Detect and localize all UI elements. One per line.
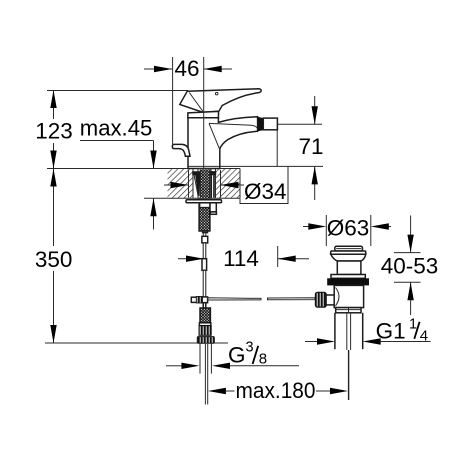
drain flange	[331, 251, 366, 254]
G3/8 connection tube walls	[199, 343, 201, 373]
dim Ø63: extension lines	[325, 215, 327, 246]
aerator joint (dark band)	[258, 117, 264, 132]
drain body boss arc	[336, 288, 340, 306]
dim max.180: arrows	[208, 388, 348, 394]
pop-up pull knob	[172, 144, 190, 156]
horizontal linkage rod segment 2	[268, 298, 316, 300]
svg-text:4: 4	[420, 327, 428, 344]
lever wedge face line	[189, 93, 203, 112]
svg-text:G: G	[228, 343, 246, 368]
drain knurled knob	[315, 292, 326, 307]
pop-up rod (upper thin)	[203, 243, 206, 259]
drain neck	[337, 261, 361, 275]
svg-text:46: 46	[174, 56, 199, 81]
drain pop-up waste: cap plate	[335, 246, 363, 251]
svg-text:8: 8	[259, 351, 267, 368]
dim 71: arrows	[312, 96, 318, 200]
dim Ø63: arrows	[303, 223, 391, 229]
base plate pieces in hole (dark)	[192, 171, 200, 175]
faucet base seam line	[188, 165, 220, 167]
mounting nut	[200, 203, 210, 208]
svg-text:G1: G1	[376, 318, 406, 343]
svg-text:Ø63: Ø63	[327, 216, 370, 241]
node: Ø34 extension lines in deck	[188, 170, 190, 198]
drain gasket (black)	[327, 278, 369, 285]
spout inner diagonal line	[209, 123, 220, 149]
mounting shank in hole	[198, 169, 211, 199]
dim max.45: leader with arrow	[80, 141, 157, 230]
extension line from spout tip down to datum	[276, 131, 278, 167]
dim G1 1/4: arrows	[305, 338, 431, 344]
hose end step	[203, 231, 208, 233]
leader for Ø34 label	[240, 166, 288, 203]
drain collar centerline	[348, 308, 350, 313]
anchor wedge guide line	[194, 173, 199, 197]
hose end connector	[202, 236, 208, 243]
svg-text:40-53: 40-53	[381, 254, 439, 279]
svg-text:114: 114	[223, 246, 259, 271]
drain inner pipe	[346, 313, 348, 350]
drain centerline extension	[348, 350, 350, 400]
faucet body with spout	[188, 117, 258, 169]
spout inner top line	[209, 123, 258, 129]
label G1 1/4	[376, 316, 429, 344]
svg-text:max.180: max.180	[236, 378, 316, 403]
svg-text:123: 123	[35, 119, 73, 144]
pop-up rod (lower thin)	[203, 270, 206, 297]
svg-text:71: 71	[298, 134, 323, 159]
hose knurled section (dark)	[199, 326, 211, 336]
dim 71: reference ticks	[278, 123, 323, 125]
dim 40-53: arrows	[407, 216, 413, 316]
dim G3/8: arrows	[166, 363, 299, 369]
flexible hose braid (lower)	[200, 308, 210, 323]
svg-text:max.45: max.45	[80, 116, 153, 141]
horizontal linkage rod segment 1	[208, 298, 261, 300]
lever set-screw dot	[215, 92, 218, 95]
svg-text:Ø34: Ø34	[244, 179, 287, 204]
wire: countertop surface line	[47, 168, 240, 170]
svg-text:3: 3	[246, 340, 254, 356]
hose neck	[202, 233, 204, 237]
dim Ø34: arrows at hole	[164, 182, 244, 188]
wire: bottom reference line (350 lower datum)	[45, 342, 228, 344]
countertop hatched deck right of hole	[216, 169, 241, 199]
dim 350: vertical line + arrows	[50, 169, 56, 344]
dim 46: right extension / faucet centerline	[203, 57, 205, 168]
drain knob stem	[325, 295, 335, 305]
drain collar	[331, 275, 365, 279]
lever handle with wedge	[180, 89, 261, 112]
countertop hatched deck left of hole	[168, 169, 194, 199]
dim 40-53: ticks	[394, 252, 421, 254]
drain threaded tailpiece outer walls	[334, 313, 336, 349]
wire: deck bottom line	[144, 197, 240, 199]
hose nut (dark, wide)	[197, 337, 214, 344]
pop-up rod guide tube	[210, 203, 216, 212]
pop-up rod adjuster sleeve	[202, 259, 207, 271]
cartridge neck	[188, 111, 219, 117]
dim 114: arrows	[178, 246, 309, 267]
dim 123: vertical line + arrows	[50, 90, 56, 169]
anchor block right (dark, split)	[211, 171, 215, 197]
dim 46: dimension line + arrows	[144, 66, 232, 72]
rod tee fitting	[191, 296, 207, 308]
drain shoulder taper	[331, 254, 366, 261]
horseshoe washer under deck	[186, 200, 222, 203]
drain lower collar	[336, 308, 361, 313]
flexible hose braid (upper)	[199, 205, 210, 232]
anchor wedge left (dark)	[195, 172, 201, 196]
hose band	[199, 323, 210, 326]
dim 46: left extension line	[172, 57, 174, 144]
svg-text:1: 1	[409, 316, 417, 332]
wire: top reference line at handle level (123 upper datum)	[47, 90, 188, 92]
svg-text:350: 350	[35, 247, 73, 272]
label G3/8	[228, 340, 267, 368]
supply hose centerline (double)	[204, 344, 206, 405]
aerator tip	[263, 118, 277, 130]
drain body	[334, 285, 363, 307]
